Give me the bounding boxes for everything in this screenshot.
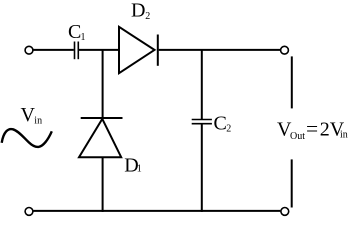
- output terminal top-right: [281, 46, 289, 54]
- svg-text:in: in: [34, 115, 42, 126]
- label D2: [131, 0, 150, 22]
- input terminal bottom-left: [25, 208, 33, 216]
- label C2: [214, 113, 232, 135]
- wire C1 to D2 anode: [79, 49, 120, 51]
- svg-text:C: C: [214, 113, 227, 135]
- svg-text:1: 1: [81, 32, 86, 43]
- node junction top wire to C2 branch: [201, 50, 203, 119]
- wire C2 to bottom wire: [201, 124, 203, 212]
- diode D2: [119, 27, 158, 73]
- svg-text:2: 2: [145, 11, 150, 22]
- wire D1 anode to bottom wire: [102, 157, 104, 212]
- svg-text:Out: Out: [290, 131, 305, 142]
- capacitor C2: [192, 120, 212, 124]
- output terminal bottom-right: [281, 208, 289, 216]
- label VOut = 2Vin: [277, 117, 348, 142]
- label D1: [124, 155, 142, 177]
- svg-text:D: D: [131, 0, 145, 21]
- wire output stub lower right: [291, 159, 293, 207]
- bottom wire: [33, 210, 280, 212]
- capacitor C1: [75, 42, 79, 60]
- label C1: [68, 21, 86, 43]
- node junction top wire to D1 branch: [102, 50, 104, 118]
- svg-text:in: in: [340, 130, 348, 141]
- diode D1: [79, 118, 123, 157]
- svg-text:V: V: [21, 104, 36, 126]
- wire output stub upper right: [291, 56, 293, 108]
- wire D2 cathode to output terminal: [159, 49, 281, 51]
- wire top-left terminal to C1: [33, 49, 73, 51]
- svg-text:2: 2: [226, 123, 231, 134]
- svg-text:1: 1: [137, 163, 142, 174]
- svg-text:=: =: [306, 117, 318, 141]
- AC source sine wave: [2, 129, 52, 147]
- label Vin: [21, 104, 43, 126]
- input terminal top-left: [25, 46, 33, 54]
- svg-text:C: C: [68, 21, 81, 43]
